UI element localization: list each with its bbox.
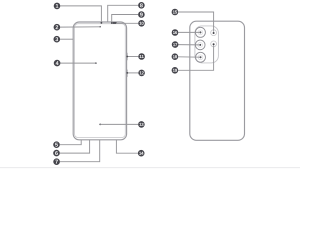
volume key (right edge) (126, 53, 128, 61)
line to 13 (100, 123, 138, 125)
badge 4 (54, 60, 61, 67)
screen bezel line (75, 24, 126, 138)
line to 5 (60, 140, 81, 145)
badge 8 (138, 2, 145, 9)
line to 11 (127, 56, 138, 58)
badge 1 (54, 3, 61, 10)
line to 19 (178, 45, 213, 70)
badge 15 (172, 9, 179, 16)
line to 14 (116, 140, 137, 153)
line to 15 (178, 12, 214, 32)
badge 14 (138, 150, 145, 157)
rear camera 1 (top) (195, 27, 205, 37)
callout badges, left phone (53, 2, 145, 165)
fingerprint sensor dot (99, 124, 101, 126)
line to 10 (116, 22, 138, 24)
badge 10 (138, 20, 145, 27)
badge 7 (53, 158, 60, 165)
callout lines, right phone (178, 12, 214, 70)
badge 13 (138, 121, 145, 128)
line to 16 (178, 31, 200, 33)
touchscreen dot (95, 62, 97, 64)
badge 19 (172, 67, 179, 74)
line to 2 (60, 26, 100, 28)
rear camera 2 (middle) (195, 40, 205, 50)
line to 18 (178, 56, 200, 58)
line to 7 (60, 140, 100, 162)
side key (right edge) (126, 69, 128, 77)
earpiece speaker on top edge (113, 22, 116, 24)
front camera dot (99, 26, 101, 28)
sensor (small circle bottom) (211, 41, 217, 47)
badge 16 (172, 29, 179, 36)
line to 1 (60, 6, 101, 23)
badge 11 (138, 53, 145, 60)
callout badges, right phone (172, 9, 179, 74)
junction dots on edges (126, 56, 128, 58)
badge 6 (53, 150, 60, 157)
badge 17 (172, 41, 179, 48)
badge 2 (54, 24, 61, 31)
flash (small circle top) (211, 30, 217, 36)
line to 9 (112, 15, 138, 23)
callout lines, left phone (60, 5, 139, 161)
badge 12 (138, 70, 145, 77)
line to 17 (178, 44, 200, 46)
rear camera 3 (bottom) (196, 52, 206, 62)
line to 4 (60, 62, 95, 64)
line to 3 (60, 38, 73, 40)
badge 5 (53, 141, 60, 148)
page separator line (0, 167, 300, 169)
phone back outline (190, 21, 245, 140)
camera housing (195, 26, 219, 63)
phone body outline (73, 22, 126, 140)
line to 8 (108, 5, 138, 22)
line to 6 (60, 140, 90, 153)
line to 12 (127, 72, 138, 74)
badge 9 (138, 11, 145, 18)
badge 3 (54, 36, 61, 43)
badge 18 (172, 53, 179, 60)
